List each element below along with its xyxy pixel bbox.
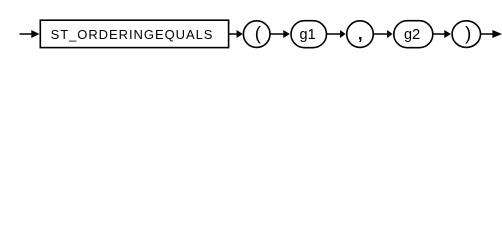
variable box g2 xyxy=(394,21,433,48)
arrowhead into g2 variable xyxy=(387,30,393,38)
arrowhead into keyword box xyxy=(31,30,39,38)
wire from keyword box xyxy=(229,33,238,35)
wire start segment xyxy=(20,33,33,35)
end arrowhead xyxy=(492,30,502,38)
arrowhead into ) terminal xyxy=(444,30,451,38)
svg-text:ST_ORDERINGEQUALS: ST_ORDERINGEQUALS xyxy=(51,27,214,42)
arrowhead into ( terminal xyxy=(237,30,243,38)
wire to end xyxy=(480,33,493,35)
arrowhead into g1 variable xyxy=(283,30,290,38)
svg-text:g2: g2 xyxy=(404,27,420,43)
terminal circle ) xyxy=(452,21,480,48)
svg-text:): ) xyxy=(465,23,471,44)
variable label g1 xyxy=(300,27,316,43)
wire from g2 xyxy=(433,33,446,35)
wire from , terminal xyxy=(373,33,388,35)
svg-text:,: , xyxy=(358,24,363,43)
wire from ( terminal xyxy=(270,33,285,35)
variable label g2 xyxy=(404,27,420,43)
terminal label ( xyxy=(255,23,262,44)
variable box g1 xyxy=(291,21,327,48)
terminal label , xyxy=(358,24,363,43)
svg-text:(: ( xyxy=(255,23,262,44)
arrowhead into , terminal xyxy=(340,30,346,38)
terminal circle , xyxy=(347,21,374,48)
keyword label ST_ORDERINGEQUALS xyxy=(51,27,214,42)
terminal label ) xyxy=(465,23,471,44)
keyword box ST_ORDERINGEQUALS xyxy=(40,20,228,47)
wire from g1 xyxy=(327,33,342,35)
terminal circle ( xyxy=(243,21,270,48)
svg-text:g1: g1 xyxy=(300,27,316,43)
